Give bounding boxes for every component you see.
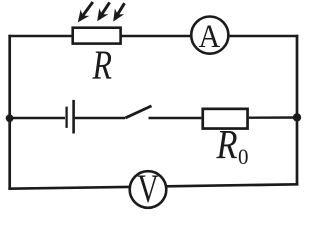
wire top left segment <box>8 35 71 38</box>
svg-text:R: R <box>216 121 238 167</box>
light arrow 3 <box>113 3 124 21</box>
light arrow 1 <box>78 2 93 22</box>
wire left side <box>8 35 11 190</box>
wire top middle segment <box>121 35 191 38</box>
wire R0 to right junction <box>249 116 297 119</box>
wire right side <box>296 35 299 186</box>
node right junction <box>293 113 301 121</box>
svg-text:R: R <box>92 41 112 87</box>
svg-text:A: A <box>199 19 221 55</box>
wire top right segment <box>228 35 298 38</box>
ammeter A <box>191 16 228 55</box>
wire middle to battery <box>10 117 65 119</box>
resistor R0 body <box>203 109 248 129</box>
wire switch to R0 <box>149 117 202 119</box>
wire battery to switch <box>75 117 125 119</box>
light arrow 2 <box>97 2 109 21</box>
node left junction <box>6 114 14 122</box>
switch S (open blade) <box>125 106 151 118</box>
battery cell <box>67 100 74 134</box>
voltmeter V <box>130 166 167 211</box>
wire bottom right segment <box>166 184 298 186</box>
svg-text:V: V <box>137 166 159 211</box>
svg-text:0: 0 <box>238 144 249 169</box>
wire bottom left segment <box>8 187 129 189</box>
resistor R body (photoresistor) <box>73 28 121 44</box>
